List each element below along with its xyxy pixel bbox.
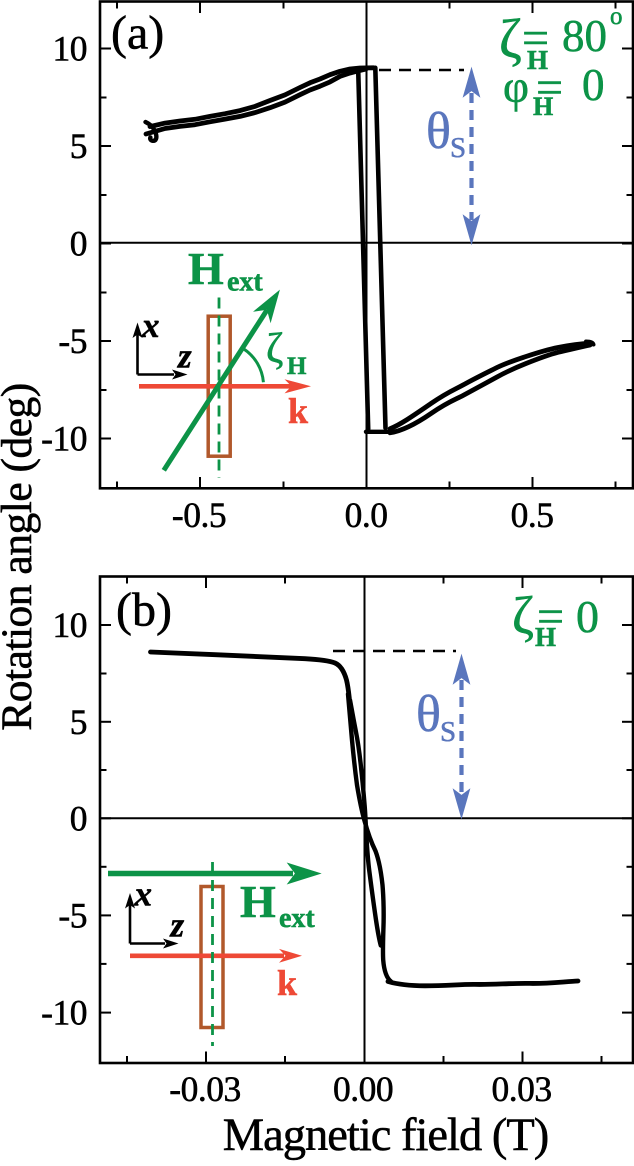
inset A red k arrow xyxy=(139,379,311,393)
dashed saturation level line (b) xyxy=(333,650,456,652)
inset A coordinate axes xyxy=(138,334,175,375)
svg-text:ζ: ζ xyxy=(266,326,283,372)
right major ticks xyxy=(622,48,633,50)
svg-text:H: H xyxy=(287,353,307,380)
curve B upper plateau xyxy=(151,652,350,698)
bottom minor ticks xyxy=(126,1056,128,1063)
svg-text:H: H xyxy=(240,876,276,927)
green annotation zeta_H = 0 (b) xyxy=(512,587,599,652)
svg-text:80: 80 xyxy=(562,11,607,61)
inset B sample normal dashed line xyxy=(211,862,214,1046)
curve B transition branch 2 xyxy=(350,700,381,946)
inset A sample rectangle xyxy=(208,316,230,456)
panel A axis ticks xyxy=(100,2,633,488)
svg-text:(b): (b) xyxy=(116,584,172,637)
svg-text:10: 10 xyxy=(53,605,88,645)
right minor ticks xyxy=(627,97,634,99)
inset A angle arc xyxy=(244,349,264,382)
inset A green field arrow xyxy=(164,291,279,470)
inset A sample normal dashed line xyxy=(218,298,221,479)
svg-text:o: o xyxy=(610,3,623,30)
hysteresis curve panel A xyxy=(146,68,594,433)
top major ticks xyxy=(199,2,201,13)
svg-text:5: 5 xyxy=(70,702,87,742)
inset B red k arrow xyxy=(130,949,302,963)
blue theta_S arrow (b) xyxy=(454,656,470,818)
svg-text:0: 0 xyxy=(70,224,87,264)
curve B lower plateau xyxy=(388,981,578,986)
panel A zero-angle horizontal line xyxy=(100,242,633,244)
svg-text:=: = xyxy=(536,62,563,115)
blue theta_S arrow (a) xyxy=(464,69,480,244)
green annotation zeta_H = 80deg xyxy=(499,3,623,75)
svg-text:0.00: 0.00 xyxy=(333,1069,393,1109)
svg-text:10: 10 xyxy=(53,29,88,69)
curve A upper branch line 2 xyxy=(146,69,366,134)
curve A lower branch line 2 xyxy=(390,345,590,433)
svg-text:-10: -10 xyxy=(41,419,87,459)
curve A bottom connector xyxy=(366,430,390,434)
svg-text:Rotation angle (deg): Rotation angle (deg) xyxy=(0,383,41,731)
svg-text:θ: θ xyxy=(416,686,441,743)
svg-text:x: x xyxy=(141,306,160,345)
svg-text:0.5: 0.5 xyxy=(511,495,554,535)
curve B transition branch 1 xyxy=(348,694,391,982)
svg-text:ext: ext xyxy=(227,267,263,298)
hysteresis curve panel B xyxy=(151,652,579,986)
panel B zero-field vertical line xyxy=(364,577,366,1063)
svg-text:k: k xyxy=(288,391,308,431)
curve A right end cap xyxy=(586,342,594,345)
dashed saturation level line (a) xyxy=(379,69,464,71)
curve A upper branch line 1 xyxy=(150,68,374,127)
svg-text:-0.03: -0.03 xyxy=(169,1069,240,1109)
bottom major ticks xyxy=(205,1052,207,1063)
top minor ticks xyxy=(126,577,128,584)
svg-text:0.0: 0.0 xyxy=(345,495,388,535)
bottom major ticks xyxy=(199,477,201,488)
right major ticks xyxy=(622,624,633,626)
svg-text:S: S xyxy=(440,716,456,748)
svg-text:θ: θ xyxy=(426,103,451,160)
curve A lower branch line 1 xyxy=(390,343,590,429)
panel A zero-field vertical line xyxy=(366,2,368,489)
svg-text:k: k xyxy=(277,963,297,1003)
panel B zero-angle horizontal line xyxy=(100,817,633,819)
svg-text:x: x xyxy=(134,875,153,914)
left minor ticks xyxy=(100,97,107,99)
panel B axis ticks xyxy=(100,577,633,1063)
top minor ticks xyxy=(116,2,118,9)
svg-text:-0.5: -0.5 xyxy=(172,495,226,535)
svg-text:(a): (a) xyxy=(111,7,164,60)
svg-text:S: S xyxy=(450,132,466,164)
curve A down-jump xyxy=(375,68,385,428)
left major ticks xyxy=(100,624,111,626)
svg-text:ζ: ζ xyxy=(499,8,522,69)
svg-text:Magnetic field (T): Magnetic field (T) xyxy=(223,1110,548,1161)
svg-text:0: 0 xyxy=(70,798,87,838)
curve A up-jump xyxy=(358,70,368,429)
svg-text:H: H xyxy=(188,243,224,294)
svg-text:ext: ext xyxy=(279,903,315,934)
inset B sample rectangle xyxy=(201,887,223,1028)
curve A left end hook xyxy=(146,122,157,141)
svg-text:0: 0 xyxy=(576,591,599,642)
svg-text:-10: -10 xyxy=(41,993,87,1033)
right minor ticks xyxy=(627,673,634,675)
svg-text:0.03: 0.03 xyxy=(491,1069,551,1109)
panel A frame xyxy=(100,2,633,489)
svg-text:=: = xyxy=(522,12,549,65)
svg-text:=: = xyxy=(537,591,564,644)
inset B coordinate axes xyxy=(130,905,165,944)
inset B green field arrow xyxy=(108,864,320,884)
panel B frame xyxy=(100,577,633,1064)
svg-text:-5: -5 xyxy=(58,895,87,935)
svg-text:0: 0 xyxy=(582,60,605,110)
top major ticks xyxy=(205,577,207,588)
svg-text:-5: -5 xyxy=(58,321,87,361)
svg-text:5: 5 xyxy=(70,126,87,166)
bottom minor ticks xyxy=(116,482,118,489)
svg-text:φ: φ xyxy=(503,62,529,112)
svg-text:z: z xyxy=(170,906,185,945)
svg-text:z: z xyxy=(177,337,192,376)
left major ticks xyxy=(100,48,111,50)
svg-text:ζ: ζ xyxy=(512,587,534,645)
green annotation phi_H = 0 xyxy=(503,60,605,121)
left minor ticks xyxy=(100,673,107,675)
